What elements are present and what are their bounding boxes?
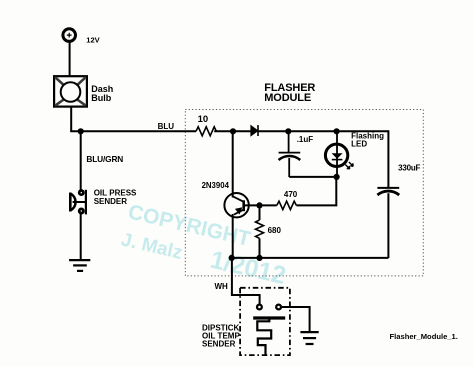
svg-text:330uF: 330uF xyxy=(398,163,420,172)
node 680 bottom junction xyxy=(256,255,262,261)
label Flashing LED xyxy=(351,132,384,149)
terminal right xyxy=(276,305,281,310)
svg-text:.1uF: .1uF xyxy=(297,135,314,144)
watermark COPYRIGHT xyxy=(119,200,289,290)
wire base to 470 xyxy=(260,204,277,206)
svg-text:680: 680 xyxy=(268,226,282,235)
wire WH down xyxy=(232,258,260,304)
wire 680 to bottom rail xyxy=(259,238,261,258)
wire bottom rail xyxy=(232,257,389,259)
wire down to oil press sender xyxy=(80,131,82,190)
svg-text:BLU: BLU xyxy=(158,122,175,131)
wire bulb to main rail xyxy=(70,107,72,132)
wire diode to LED rail xyxy=(258,130,388,132)
flasher module dashed box xyxy=(185,110,423,276)
wire right terminal to ground xyxy=(281,307,309,332)
wire 12V to bulb xyxy=(69,41,71,76)
ground (right) xyxy=(300,332,318,344)
svg-text:2N3904: 2N3904 xyxy=(202,181,230,190)
svg-text:LED: LED xyxy=(351,139,367,148)
wire base dot to 680 xyxy=(259,205,261,220)
diode D1 xyxy=(251,125,258,136)
svg-text:MODULE: MODULE xyxy=(264,92,311,104)
capacitor .1uF xyxy=(279,131,301,177)
capacitor 330uF xyxy=(377,188,399,258)
LED D2 flashing xyxy=(325,131,353,177)
label Dash Bulb xyxy=(91,84,113,103)
svg-text:SENDER: SENDER xyxy=(202,340,236,349)
resistor R 680 xyxy=(256,220,264,238)
node .1uF junction xyxy=(285,128,291,134)
wire top rail to 330uF xyxy=(387,130,389,187)
wire resistor to diode xyxy=(214,130,251,132)
switch oil press sender xyxy=(70,190,86,215)
wire sender to ground xyxy=(80,213,82,260)
svg-text:10: 10 xyxy=(198,114,209,125)
wire base lead xyxy=(244,204,262,206)
svg-text:WH: WH xyxy=(215,282,229,291)
wire main top rail left xyxy=(70,130,196,132)
node emitter bottom junction xyxy=(229,255,235,261)
wire 470 to LED bottom xyxy=(296,177,336,206)
heater element dipstick xyxy=(253,318,285,355)
label DIPSTICK OIL TEMP SENDER xyxy=(202,323,240,348)
lamp Dash Bulb xyxy=(54,76,87,106)
svg-text:SENDER: SENDER xyxy=(94,197,128,206)
node junction at bulb xyxy=(78,128,84,134)
node LED top junction xyxy=(334,128,340,134)
svg-text:BLU/GRN: BLU/GRN xyxy=(86,154,123,164)
wire cap bottom to LED bottom xyxy=(289,176,336,178)
dipstick sender dash-dot box xyxy=(240,288,290,355)
resistor R 470 xyxy=(277,201,297,209)
resistor R 10 xyxy=(196,127,216,136)
svg-text:Flasher_Module_1.: Flasher_Module_1. xyxy=(390,332,458,341)
node base junction xyxy=(256,202,262,208)
node LED bottom junction xyxy=(334,174,340,180)
ground (left) xyxy=(69,260,90,271)
node collector junction xyxy=(230,128,236,134)
svg-text:12V: 12V xyxy=(86,35,99,44)
transistor Q1 2N3904 xyxy=(224,131,248,258)
label OIL PRESS SENDER xyxy=(94,189,137,207)
svg-text:Bulb: Bulb xyxy=(91,93,111,103)
label FLASHER MODULE xyxy=(264,82,315,104)
12V terminal xyxy=(63,29,76,42)
svg-text:470: 470 xyxy=(284,190,298,199)
terminal left xyxy=(257,305,262,310)
